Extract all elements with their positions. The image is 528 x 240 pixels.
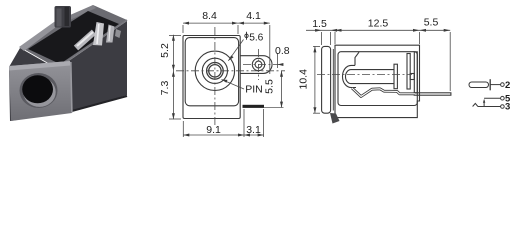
terminal circle 5	[501, 96, 505, 100]
arrows 5.2	[172, 35, 175, 41]
arrows 7.3	[172, 71, 175, 77]
spring contact inner white	[352, 88, 415, 97]
side view centerline	[317, 73, 412, 75]
svg-text:5.5: 5.5	[263, 79, 275, 94]
ext lines top	[182, 25, 184, 33]
svg-text:5.2: 5.2	[159, 43, 171, 58]
barrel outer circle	[195, 51, 234, 90]
tab hole	[255, 61, 262, 68]
switch hump	[473, 103, 478, 106]
leader dia5.6	[228, 40, 243, 61]
arrows 4.1	[238, 22, 244, 25]
barrel hole ring	[20, 73, 58, 108]
svg-text:0.8: 0.8	[275, 45, 290, 57]
blade 1	[407, 54, 410, 90]
barrel h centerline	[176, 70, 285, 72]
cavity inner metal pin	[76, 32, 94, 48]
middle view texts	[159, 10, 290, 136]
jack cavity	[28, 11, 119, 64]
barrel middle circle	[202, 58, 227, 83]
arrows 5.5	[420, 29, 427, 32]
blade 2	[414, 52, 417, 93]
svg-text:8.4: 8.4	[202, 10, 217, 22]
shield collar lip	[343, 52, 360, 87]
rim front edge highlight	[57, 20, 127, 68]
arrows 9.1	[183, 134, 189, 137]
pin ring inner	[209, 65, 221, 77]
svg-text:5.5: 5.5	[424, 16, 439, 28]
terminal tab 2	[106, 25, 115, 43]
switch arrowhead	[483, 99, 485, 103]
rim left edge bright strip	[19, 22, 58, 51]
mounting foot	[330, 113, 340, 124]
5.5 dim line right	[281, 71, 283, 108]
lug bar solid	[243, 105, 265, 108]
left dim line	[172, 35, 174, 120]
spring contact	[352, 88, 415, 97]
pin bar	[489, 79, 491, 90]
centerlines middle view	[176, 27, 285, 127]
lug ext thin line	[264, 106, 284, 108]
wire pin2	[490, 84, 501, 86]
dimension graphics middle	[169, 22, 283, 137]
dia symbol	[245, 34, 248, 37]
tab ring	[252, 58, 264, 70]
pin end post	[394, 64, 397, 89]
lead wire	[414, 93, 451, 95]
top dim line	[306, 29, 450, 31]
switch arrow line	[483, 100, 485, 106]
wire pin3	[478, 106, 501, 108]
arrows 3.1	[244, 134, 250, 137]
svg-text:10.4: 10.4	[298, 69, 310, 90]
side view texts	[298, 16, 439, 89]
svg-text:12.5: 12.5	[368, 18, 389, 30]
body outline with notch	[335, 45, 420, 117]
10.4 dim line	[314, 46, 316, 113]
leader PIN	[222, 80, 245, 90]
0.8 dim	[276, 53, 278, 68]
schematic pin numbers	[505, 80, 511, 113]
side view dims	[306, 29, 450, 113]
body inner rounded rect	[185, 38, 238, 106]
blade dimple	[410, 74, 414, 80]
jack top face rim	[20, 5, 127, 68]
pin ring outer	[207, 63, 224, 80]
top dim line	[183, 22, 270, 24]
arrows 1.5 outside	[315, 29, 322, 32]
front plate	[9, 61, 72, 121]
center pin rod	[346, 70, 395, 84]
tab h centerline	[243, 64, 280, 66]
svg-text:7.3: 7.3	[159, 81, 171, 96]
svg-text:2: 2	[505, 80, 510, 91]
terminal circle 3	[501, 105, 505, 109]
jack body block	[9, 21, 127, 121]
svg-text:4.1: 4.1	[246, 10, 261, 22]
top pin tab	[55, 6, 72, 28]
svg-text:1.5: 1.5	[312, 18, 327, 30]
arrows 12.5	[335, 29, 342, 32]
terminal tab 1	[93, 22, 104, 46]
flange	[322, 46, 331, 113]
barrel v centerline	[214, 27, 216, 127]
body outer rect	[183, 36, 240, 119]
svg-text:3.1: 3.1	[246, 124, 261, 136]
plate right edge highlight	[71, 62, 72, 113]
barrel inner glint	[23, 77, 55, 107]
barrel hole	[22, 75, 53, 103]
terminal tab rear small	[115, 29, 121, 38]
inner cavity rect	[338, 52, 417, 106]
svg-text:5.6: 5.6	[249, 32, 263, 43]
wire pin5	[484, 97, 501, 99]
ext lines	[321, 32, 323, 45]
arrows 8.4	[183, 22, 189, 25]
mount tab stadium	[240, 56, 272, 74]
barrel symbol	[469, 82, 489, 88]
rim back edge strip	[54, 5, 96, 26]
tab v centerline	[258, 49, 260, 80]
svg-text:3: 3	[505, 102, 510, 113]
bottom dim line	[183, 134, 263, 136]
body bottom edge shade	[70, 96, 127, 112]
svg-text:9.1: 9.1	[206, 124, 221, 136]
flange washer line	[332, 49, 334, 111]
terminal circle 2	[501, 83, 505, 87]
svg-text:PIN: PIN	[245, 84, 263, 96]
